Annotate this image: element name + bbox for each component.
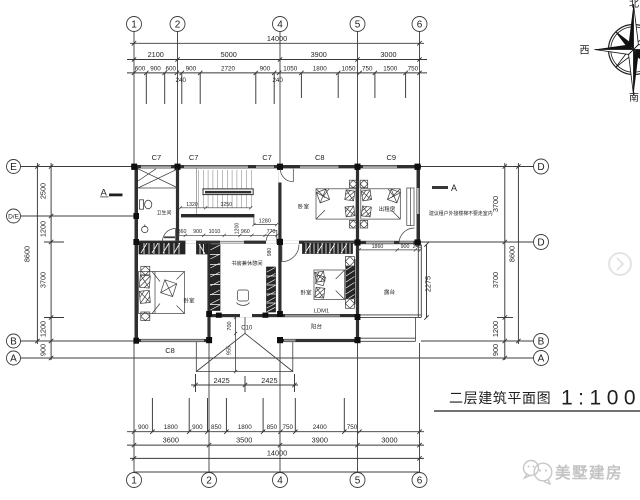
svg-text:C7: C7: [152, 153, 162, 162]
svg-text:露台: 露台: [384, 288, 396, 296]
wall grid2 top (bathroom east): [176, 168, 179, 240]
grid bubble A right: [534, 351, 549, 366]
bed middle-bottom bedroom: [314, 270, 345, 300]
svg-text:900: 900: [193, 229, 202, 235]
leader A right: [421, 357, 534, 359]
svg-text:1860: 1860: [372, 244, 384, 250]
bathroom door arc: [163, 229, 176, 242]
bed top-middle bedroom: [316, 189, 356, 219]
window C9 glazing top: [363, 166, 397, 168]
svg-text:1010: 1010: [209, 229, 221, 235]
grid bubble 4 top: [273, 17, 288, 32]
svg-text:700: 700: [227, 321, 233, 330]
nightstand mid bottom: [349, 220, 357, 228]
svg-text:1: 1: [131, 20, 137, 31]
stair treads: [197, 168, 252, 214]
svg-text:900: 900: [401, 244, 410, 250]
svg-text:C7: C7: [189, 153, 199, 162]
svg-text:D: D: [537, 162, 544, 173]
bottom witness lines: [152, 398, 344, 432]
grid bubble E left: [7, 160, 21, 174]
grid bubble 4 bottom: [273, 473, 288, 488]
svg-text:750: 750: [347, 424, 358, 431]
leader A left: [21, 357, 535, 359]
grid bubble 1 top: [127, 17, 142, 32]
top dim line row2: [127, 59, 427, 61]
svg-text:二层建筑平面图: 二层建筑平面图: [449, 390, 551, 406]
svg-text:3700: 3700: [491, 196, 500, 212]
left extension marks D and T: [44, 242, 64, 318]
wardrobe middle bedroom east: [346, 260, 355, 305]
svg-text:3900: 3900: [312, 436, 328, 445]
study/balcony wall south: [207, 314, 359, 317]
logo icon bubbles: [524, 461, 552, 485]
witness lines below top dims: [146, 73, 405, 104]
porch hip roof diagonals: [196, 333, 292, 371]
svg-text:1800: 1800: [238, 424, 253, 431]
section marker A right: [432, 183, 457, 193]
grid line 1 bottom stem: [133, 343, 135, 473]
svg-text:1800: 1800: [313, 65, 328, 72]
grid bubble 2 top: [170, 17, 185, 32]
svg-text:1200: 1200: [235, 223, 241, 235]
svg-text:3000: 3000: [380, 50, 396, 59]
porch ridge stub: [244, 317, 246, 333]
compass outer circle: [609, 25, 640, 75]
left inner dim chain line: [50, 163, 52, 360]
porch dim line 2425+2425: [191, 384, 298, 386]
grid bubble 6 bottom: [412, 473, 427, 488]
svg-text:B: B: [10, 337, 17, 348]
bed top-right bedroom: [361, 189, 401, 219]
terrace south wall: [359, 314, 421, 316]
compass star S: [634, 50, 639, 96]
wall D terrace north: [356, 241, 421, 244]
grid line 2 top (vertical): [177, 32, 179, 166]
svg-text:8600: 8600: [507, 246, 516, 262]
window C8 south glazing: [141, 340, 204, 342]
closet stub bedroom left: [197, 244, 208, 254]
grid line 6 (vertical): [419, 32, 421, 166]
svg-text:2275: 2275: [424, 276, 433, 292]
leader D right upper: [421, 166, 534, 168]
svg-text:4: 4: [277, 476, 283, 487]
svg-text:750: 750: [408, 65, 419, 72]
svg-text:2500: 2500: [39, 183, 48, 199]
svg-text:1050: 1050: [283, 65, 298, 72]
svg-text:850: 850: [267, 424, 278, 431]
right outer dim line 8600: [517, 163, 519, 344]
svg-text:D/E: D/E: [8, 214, 20, 221]
svg-text:E: E: [10, 162, 17, 173]
svg-text:240: 240: [413, 244, 422, 250]
parapet below terrace: [360, 318, 416, 342]
grid bubble B right: [534, 334, 549, 349]
nightstand right top: [360, 180, 368, 188]
right extension mark T: [497, 317, 513, 319]
svg-text:900: 900: [138, 424, 149, 431]
grid line 5 (vertical): [357, 32, 359, 166]
svg-text:北: 北: [629, 0, 639, 10]
nightstand right bottom: [360, 220, 368, 228]
svg-text:南: 南: [629, 91, 639, 104]
grid bubble 5 bottom: [350, 473, 365, 488]
compass star diagonals: [616, 32, 640, 67]
watermark circle: [609, 253, 631, 275]
leader D/E left: [21, 215, 135, 217]
svg-text:C8: C8: [165, 346, 175, 355]
svg-text:1800: 1800: [164, 424, 179, 431]
svg-text:1:100: 1:100: [561, 387, 640, 410]
terrace dim row 1860/900/240: [358, 248, 422, 251]
svg-text:2100: 2100: [148, 50, 164, 59]
svg-text:955: 955: [227, 346, 233, 355]
svg-text:3600: 3600: [163, 436, 179, 445]
wall D between bedrooms: [282, 241, 356, 244]
svg-text:1200: 1200: [491, 321, 500, 337]
svg-text:240: 240: [176, 77, 187, 84]
svg-text:1200: 1200: [39, 221, 48, 237]
columns top row: [131, 164, 420, 344]
svg-text:6: 6: [417, 20, 423, 31]
compass star E: [634, 50, 640, 55]
left exterior wall: [135, 165, 139, 342]
grid line 1 (vertical): [133, 32, 135, 166]
left outer dim line 8600: [36, 163, 38, 344]
grid bubble A left: [7, 351, 21, 365]
svg-text:美墅建房: 美墅建房: [555, 463, 623, 482]
svg-text:240: 240: [272, 77, 283, 84]
wall B (south exterior) left part: [134, 339, 212, 342]
leader B left: [21, 340, 135, 342]
grid bubble D right upper: [534, 159, 549, 174]
wall grid4: [278, 168, 281, 314]
grid line 4 (vertical): [279, 32, 281, 166]
top overall dim line 14000: [130, 42, 424, 44]
grid bubble B left: [7, 334, 21, 348]
columns D row: [277, 239, 283, 245]
columns study south row: [206, 311, 212, 317]
toilet: [140, 200, 152, 209]
svg-text:阳台: 阳台: [311, 323, 323, 331]
compass inner circle: [611, 27, 640, 72]
svg-text:750: 750: [282, 424, 293, 431]
right wall window glazing: [417, 188, 419, 214]
bottom dim line row1: [127, 431, 424, 433]
grid bubble D/E left: [7, 209, 21, 223]
ticks bottom row2: [132, 443, 422, 447]
porch outline: [196, 342, 292, 372]
svg-text:4: 4: [277, 20, 283, 31]
svg-text:2400: 2400: [313, 424, 328, 431]
stair south wall D/E: [181, 214, 254, 217]
svg-text:3500: 3500: [236, 436, 252, 445]
svg-text:6: 6: [417, 476, 423, 487]
nightstand mid top: [349, 180, 357, 188]
svg-text:1500: 1500: [383, 65, 398, 72]
terrace east wall: [359, 245, 421, 318]
svg-text:LDM1: LDM1: [314, 308, 329, 314]
svg-text:14000: 14000: [267, 449, 287, 458]
wall D (corridor south): [134, 241, 282, 244]
grid bubble 2 bottom: [202, 473, 217, 488]
right ticks inner: [503, 164, 507, 360]
grid line 4 bottom stem: [279, 343, 281, 473]
right ticks outer: [516, 164, 520, 343]
grid bubble 5 top: [350, 17, 365, 32]
svg-text:2: 2: [206, 476, 212, 487]
ticks bottom row1: [132, 430, 422, 434]
porch witness lines: [196, 374, 295, 392]
svg-text:900: 900: [192, 424, 203, 431]
svg-text:600: 600: [166, 65, 177, 72]
svg-text:3700: 3700: [491, 272, 500, 288]
study chair: [237, 290, 250, 305]
wardrobe top-middle rooms: [303, 243, 353, 253]
compass star N: [629, 4, 634, 50]
columns B row: [206, 337, 212, 343]
right exterior wall: [417, 165, 421, 244]
window C7b glazing: [184, 166, 248, 168]
svg-text:5000: 5000: [221, 50, 237, 59]
columns left wall: [133, 213, 139, 219]
svg-text:C10: C10: [241, 325, 253, 331]
grid line 6 bottom stem: [419, 343, 421, 473]
svg-text:3900: 3900: [311, 50, 327, 59]
dresser right wall: [407, 188, 414, 226]
svg-text:B: B: [538, 337, 545, 348]
svg-text:书房兼休憩间: 书房兼休憩间: [231, 259, 262, 267]
bookshelf study west: [210, 245, 220, 311]
svg-text:850: 850: [211, 424, 222, 431]
svg-text:D: D: [537, 238, 544, 249]
svg-text:C7: C7: [262, 153, 272, 162]
svg-text:3000: 3000: [381, 436, 397, 445]
grid line 2 bottom stem: [208, 343, 210, 473]
door arc top bedroom: [280, 169, 293, 182]
svg-text:出租房: 出租房: [379, 205, 396, 213]
svg-text:5: 5: [355, 20, 361, 31]
svg-text:C9: C9: [387, 153, 397, 162]
svg-text:980: 980: [267, 248, 273, 257]
svg-text:2720: 2720: [221, 65, 236, 72]
ticks bottom row3: [132, 456, 422, 460]
bed bottom-left bedroom: [139, 272, 185, 314]
svg-text:8600: 8600: [23, 246, 32, 262]
window C8 glazing top: [300, 166, 339, 168]
grid bubble 1 bottom: [127, 473, 142, 488]
svg-text:5: 5: [355, 476, 361, 487]
svg-text:2425: 2425: [213, 376, 229, 385]
wall B right part: [278, 339, 360, 342]
svg-text:C8: C8: [315, 153, 325, 162]
svg-text:900: 900: [260, 65, 271, 72]
svg-text:1200: 1200: [39, 321, 48, 337]
window C7c glazing: [256, 166, 274, 168]
left ticks inner: [49, 164, 53, 360]
stair handrail: [203, 189, 253, 195]
svg-text:西: 西: [580, 46, 590, 57]
dim line 2275 terrace: [426, 245, 428, 318]
svg-text:3700: 3700: [39, 272, 48, 288]
nightstand mb bottom: [345, 299, 354, 309]
nightstand mb top: [345, 257, 354, 267]
nightstand bottom-left top: [141, 266, 150, 275]
wall grid2 bottom (study west): [207, 242, 210, 339]
svg-text:建议租户外接楼梯不要走室内: 建议租户外接楼梯不要走室内: [429, 210, 493, 217]
svg-text:900: 900: [491, 344, 500, 356]
ticks top rows: [132, 41, 422, 75]
left ticks outer: [35, 164, 39, 343]
window C7a glazing: [141, 166, 171, 168]
svg-text:960: 960: [241, 229, 250, 235]
bottom dim line row2: [127, 444, 424, 446]
svg-text:1: 1: [131, 476, 137, 487]
wall grid5: [356, 168, 359, 342]
bathroom shower corner: [138, 169, 178, 188]
bottom connector line: [134, 471, 420, 473]
top dim line row3: [127, 72, 427, 74]
nightstand bottom-left bottom: [141, 312, 150, 321]
door arc corridor to C9 room: [266, 230, 276, 240]
svg-text:A: A: [538, 354, 545, 365]
wash basin: [142, 225, 148, 233]
svg-text:2425: 2425: [261, 376, 277, 385]
bookshelf study east: [267, 267, 276, 312]
svg-text:A: A: [451, 183, 457, 193]
svg-text:600: 600: [135, 65, 146, 72]
grid line 5 bottom stem: [357, 343, 359, 473]
wardrobe bottom-left bedroom: [139, 243, 185, 254]
svg-text:900: 900: [186, 65, 197, 72]
leader B right: [421, 340, 534, 342]
door arc middle bedroom: [282, 245, 299, 262]
svg-text:14000: 14000: [267, 34, 287, 43]
svg-text:900: 900: [150, 65, 161, 72]
top exterior wall band E: [134, 165, 421, 168]
porch vertical dim: [235, 316, 237, 372]
grid bubble D right: [534, 235, 549, 250]
svg-text:卧室: 卧室: [300, 289, 312, 297]
svg-text:900: 900: [39, 344, 48, 356]
svg-text:360: 360: [178, 229, 187, 235]
svg-text:A: A: [10, 354, 17, 365]
svg-text:卧室: 卧室: [298, 203, 310, 211]
svg-text:1320: 1320: [186, 202, 198, 208]
corridor dim row: [176, 234, 278, 237]
leader D right: [421, 241, 534, 243]
title underline: [434, 410, 640, 412]
svg-text:3250: 3250: [221, 202, 233, 208]
svg-text:750: 750: [362, 65, 373, 72]
corridor dim 1280: [252, 217, 278, 226]
compass star W: [595, 45, 634, 50]
svg-text:卧室: 卧室: [183, 297, 195, 305]
svg-text:卫生间: 卫生间: [156, 210, 171, 217]
grid bubble 6 top: [412, 17, 427, 32]
right inner dim chain line: [504, 163, 506, 360]
bottom dim line row3 14000: [130, 457, 424, 459]
door arc terrace: [399, 228, 415, 244]
stair dim line: [179, 206, 253, 209]
svg-text:2: 2: [175, 20, 181, 31]
leader E left: [21, 166, 135, 168]
svg-text:1280: 1280: [259, 218, 271, 224]
svg-text:1050: 1050: [341, 65, 356, 72]
